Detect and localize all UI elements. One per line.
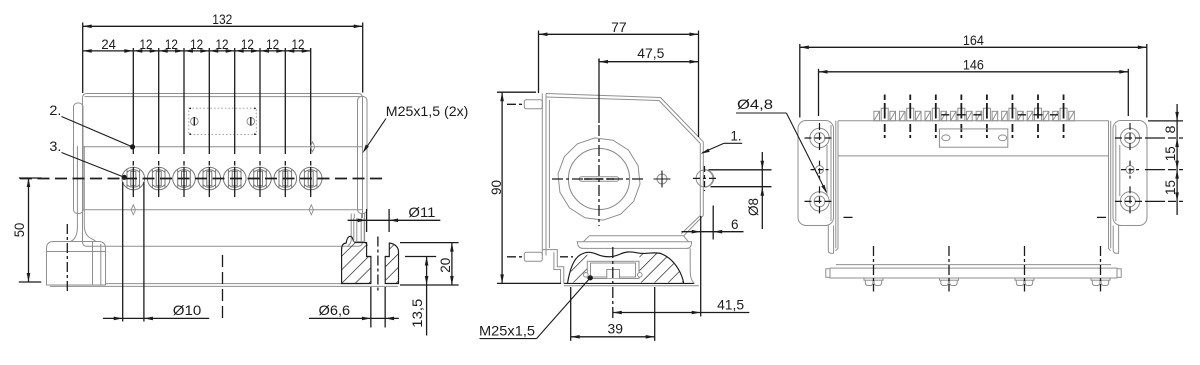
box top edge (546, 94, 661, 98)
gland boss polygon (558, 138, 640, 220)
boss vertical centerline (598, 59, 600, 124)
ejector diamonds (131, 205, 135, 215)
svg-text:3.: 3. (49, 138, 61, 154)
left mounting foot (47, 242, 106, 286)
base left edge (542, 250, 564, 284)
terminal 4 (198, 167, 221, 190)
right foot hole centerline (377, 237, 379, 294)
terminal centerline (183, 48, 185, 197)
terminal 6 (249, 167, 272, 190)
svg-text:90: 90 (488, 180, 504, 195)
wall tab bottom (524, 252, 542, 261)
left foot hole centerline (66, 224, 68, 292)
bump 7 (1035, 108, 1042, 121)
svg-text:146: 146 (963, 57, 984, 73)
right mounting foot (sectioned) right part (385, 243, 398, 284)
terminal 8 (299, 167, 322, 190)
right mounting foot (sectioned) left part (342, 236, 371, 283)
bottom edge lines (106, 283, 363, 285)
bump 2 (907, 108, 914, 121)
wall tab top (524, 100, 542, 109)
box bottom rim (589, 235, 683, 237)
bump 1 (881, 108, 888, 121)
gland notch (607, 270, 620, 279)
dim O8 (709, 169, 772, 171)
svg-text:164: 164 (963, 32, 984, 48)
foot recess floor line (367, 256, 371, 258)
gland slot (579, 177, 619, 181)
svg-text:Ø6,6: Ø6,6 (319, 302, 351, 318)
lid seam line (83, 146, 363, 148)
svg-text:41,5: 41,5 (717, 297, 744, 313)
left flange holes O4,8 (810, 128, 829, 147)
svg-text:Ø8: Ø8 (745, 198, 761, 216)
svg-text:12: 12 (140, 36, 153, 52)
dim 39 (570, 287, 572, 341)
dim 50 (19, 177, 42, 179)
plate corner dots (189, 108, 191, 110)
terminal centerline (158, 48, 160, 197)
svg-text:2.: 2. (49, 102, 61, 118)
dash mark left of bell (560, 256, 573, 258)
terminal 1 (122, 167, 145, 190)
terminal centerline (259, 48, 261, 197)
svg-text:Ø11: Ø11 (408, 204, 435, 220)
gland insert rects (587, 261, 639, 278)
right gland end cap M25 (358, 97, 368, 214)
o-ring circles (584, 273, 589, 278)
right wall (702, 142, 704, 216)
bevel corner (661, 98, 704, 142)
right dims 8/15/15 (1148, 120, 1183, 122)
dim 90 (497, 91, 536, 93)
svg-text:132: 132 (212, 11, 232, 27)
dim O11 (366, 209, 368, 232)
svg-text:12: 12 (216, 36, 229, 52)
terminal centerline (310, 48, 312, 197)
body outline (top view) (836, 121, 1111, 251)
centerline dashes near body bottom corners (844, 216, 853, 218)
svg-text:15: 15 (1162, 180, 1178, 195)
svg-text:M25x1,5: M25x1,5 (479, 323, 535, 339)
svg-text:8: 8 (1162, 125, 1178, 133)
horizontal center dashes bumps 4,7 (941, 114, 949, 116)
terminal centerline (234, 48, 236, 197)
dim 164 (799, 44, 801, 118)
right flange bracket tab (1113, 226, 1118, 254)
small crosshair circle (657, 174, 667, 184)
base strip (836, 264, 1111, 266)
right flange holes O4,8 (1120, 128, 1139, 147)
bump 3 (932, 108, 939, 121)
svg-text:50: 50 (11, 223, 27, 238)
dim O10 (122, 182, 124, 322)
right end cap lower column (348, 214, 368, 246)
side wall (left, mounting plate edge-on) (541, 94, 543, 256)
svg-text:12: 12 (241, 36, 254, 52)
terminal centerline (132, 48, 134, 197)
dim 77 (538, 31, 540, 94)
dim 47,5 (598, 59, 600, 62)
terminal 3 (173, 167, 196, 190)
wall bracket stem (left) (71, 146, 96, 242)
O8 side hole (696, 170, 713, 187)
terminal 5 (223, 167, 246, 190)
bump 6 (1009, 108, 1016, 121)
plate screw right (247, 118, 255, 126)
svg-text:Ø10: Ø10 (173, 302, 202, 318)
left gland end cap (74, 103, 84, 214)
hatch left patch (568, 252, 587, 282)
svg-text:12: 12 (292, 36, 305, 52)
dim 146 (818, 69, 820, 116)
svg-text:Ø4,8: Ø4,8 (737, 96, 773, 112)
cap column white overlay on foot (354, 218, 364, 242)
dim 6 (712, 206, 714, 240)
dim chain 24 + 12x7 (83, 50, 311, 52)
svg-text:24: 24 (101, 36, 116, 52)
bump 8 (1060, 108, 1067, 121)
enclosure body outline (front) (83, 94, 363, 247)
lower right diagonal (684, 216, 704, 236)
left flange bracket tab (828, 226, 833, 254)
svg-text:12: 12 (190, 36, 203, 52)
terminal 2 (147, 167, 170, 190)
base right edge (690, 248, 694, 283)
bottom feet (top view) (864, 278, 883, 280)
dim O6,6 (370, 287, 372, 328)
base bottom (564, 282, 695, 284)
lower body line (83, 209, 363, 211)
bump 4 (958, 108, 965, 121)
dim 41,5 (700, 216, 702, 317)
svg-text:13,5: 13,5 (409, 298, 425, 327)
terminal 7 (274, 167, 297, 190)
svg-text:39: 39 (608, 321, 624, 337)
left flange (798, 121, 834, 226)
right flange (1113, 121, 1147, 226)
svg-text:6: 6 (731, 216, 739, 232)
plate screw left (191, 118, 199, 126)
svg-text:1.: 1. (731, 128, 742, 144)
base centerline dashed (612, 247, 614, 318)
gland boss inner circle (568, 148, 629, 209)
hatch right patch (640, 253, 684, 283)
svg-text:15: 15 (1162, 146, 1178, 161)
svg-text:12: 12 (165, 36, 178, 52)
svg-text:M25x1,5 (2x): M25x1,5 (2x) (386, 103, 469, 119)
terminal centerline (208, 48, 210, 197)
center dash bottom (222, 255, 224, 320)
lid seam (838, 155, 1109, 157)
horizontal centerline through terminals (20, 178, 385, 180)
svg-text:12: 12 (266, 36, 279, 52)
svg-text:47,5: 47,5 (637, 45, 664, 61)
bell outline (568, 252, 684, 283)
dim 132 (82, 23, 84, 94)
terminal centerline (284, 48, 286, 197)
label plate (top view) (939, 129, 1007, 147)
svg-text:20: 20 (437, 258, 453, 273)
bump 5 (983, 108, 990, 121)
dim 13,5 (405, 256, 436, 258)
label plate (front) (189, 108, 256, 134)
boss horizontal centerline (552, 178, 646, 180)
svg-text:77: 77 (611, 19, 627, 35)
dim 20 (400, 242, 459, 244)
